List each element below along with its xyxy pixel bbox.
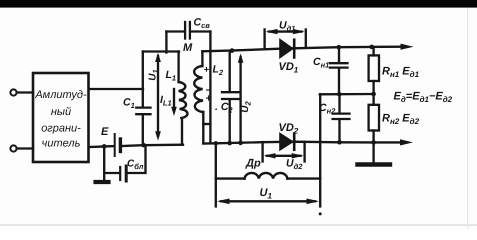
svg-text:E: E <box>101 126 109 138</box>
resistor Rn1 top stub <box>372 47 374 56</box>
node dot at E/ground junction <box>102 144 107 149</box>
ground bar right <box>358 162 391 166</box>
node dot C1 bottom <box>141 143 146 148</box>
node dot C2 bottom <box>227 141 232 146</box>
diode VD1 <box>280 40 293 58</box>
Ud1 tick left <box>263 30 265 49</box>
top output arrow head <box>401 44 414 50</box>
primary tank top wire <box>143 50 179 52</box>
svg-text:Сн2: Сн2 <box>319 102 336 116</box>
wire box output to C1 branch <box>89 88 143 90</box>
svg-text:Др: Др <box>245 158 261 170</box>
input terminal bottom <box>10 145 16 151</box>
capacitor Cn2 bottom plate <box>333 118 350 120</box>
node dot U2 bottom <box>238 141 243 146</box>
right faint page edge line <box>467 8 468 229</box>
wire Cbl branch left <box>104 172 119 174</box>
resistor Rn1 <box>369 55 379 81</box>
diode VD2 cathode bar <box>293 134 296 150</box>
inductor L2 top lead <box>201 51 203 66</box>
node dot secondary top (C2) <box>230 48 235 53</box>
wire E battery to C1 bottom node <box>122 145 183 146</box>
svg-text:U1: U1 <box>260 187 273 201</box>
wire Csv drop to secondary top <box>209 32 211 52</box>
coupling capacitor Csv left drop <box>165 32 167 53</box>
svg-text:Uд1: Uд1 <box>279 20 295 34</box>
capacitor Cn2 top plate <box>333 112 350 114</box>
U1 dimension arrow bottom <box>221 200 315 202</box>
svg-text:Сбл: Сбл <box>127 159 144 172</box>
resistor Rn2 top stub <box>372 94 374 105</box>
resistor Rn2 bottom stub <box>372 131 374 143</box>
svg-text:VD2: VD2 <box>279 122 299 136</box>
svg-text:L2: L2 <box>213 64 224 78</box>
svg-text:ный: ный <box>51 106 71 118</box>
top black bar <box>0 0 477 8</box>
wire junction down to ground <box>103 146 105 181</box>
C1 branch vertical lower <box>142 115 144 145</box>
wire terminal top to box <box>17 91 33 93</box>
svg-text:Амлитуд-: Амлитуд- <box>34 89 87 101</box>
svg-text:+: + <box>205 93 211 105</box>
amplitude limiter box U1 <box>33 73 89 162</box>
svg-text:читель: читель <box>42 138 81 150</box>
diode VD2 <box>280 134 293 150</box>
ground bar <box>96 180 109 184</box>
svg-text:Сн1: Сн1 <box>313 56 329 70</box>
inductor L2 coil <box>194 66 203 112</box>
secondary bottom rail <box>203 142 404 144</box>
svg-text:+: + <box>204 65 210 76</box>
capacitor Cn1 branch lower <box>338 69 340 95</box>
Ud1 tick right <box>305 30 307 48</box>
C1 branch vertical upper <box>142 52 144 107</box>
inductor L1 coil <box>179 82 188 118</box>
inductor L1 bottom lead <box>181 118 183 145</box>
capacitor Cn1 branch upper <box>338 47 340 62</box>
capacitor C2 bottom plate <box>222 98 239 100</box>
stray ink dot <box>319 212 322 215</box>
capacitor Csv right plate <box>189 22 191 39</box>
node dot middle rail at Rn2 <box>371 92 376 97</box>
svg-text:U2: U2 <box>240 100 253 112</box>
capacitor Csv left plate <box>184 22 186 39</box>
svg-text:U1: U1 <box>148 69 161 80</box>
svg-text:Ссв: Ссв <box>194 17 211 31</box>
inductor L2 bottom lead <box>202 112 204 143</box>
bottom faint page line <box>0 224 477 225</box>
input terminal top <box>10 89 16 95</box>
svg-text:VD1: VD1 <box>279 61 299 75</box>
node dot top rail at Cn1 <box>337 45 342 50</box>
current arrow iL1 <box>173 89 175 108</box>
resistor Rn2 <box>369 105 379 131</box>
svg-text:Uд2: Uд2 <box>286 158 303 172</box>
choke Dr wire right <box>287 177 320 179</box>
wire drop to choke / U1 tick left <box>215 143 217 206</box>
capacitor Cn2 branch upper <box>338 94 340 112</box>
capacitor C2 branch lower <box>229 100 231 143</box>
capacitor Cn1 top plate <box>330 62 348 64</box>
node dot bottom rail at Cn2 <box>337 140 342 145</box>
svg-text:L1: L1 <box>166 69 177 83</box>
choke Dr wire left <box>216 177 245 179</box>
secondary top rail <box>202 47 404 52</box>
choke Dr coil <box>245 173 288 179</box>
capacitor C2 branch upper <box>229 51 231 91</box>
wire Cbl right <box>128 145 146 173</box>
capacitor C1 top plate <box>136 106 150 108</box>
wire Csv right <box>191 30 210 32</box>
middle rail <box>320 93 374 96</box>
svg-text:С1: С1 <box>123 97 135 111</box>
resistor Rn1 bottom stub <box>372 81 374 94</box>
Ud2 tick left <box>261 142 263 161</box>
capacitor Cn2 branch lower <box>338 120 340 142</box>
Ud2 tick right <box>303 142 305 162</box>
bottom output arrow head <box>400 139 413 145</box>
svg-text:М: М <box>183 42 193 54</box>
svg-text:Eд=Eд1−Eд2: Eд=Eд1−Eд2 <box>394 91 453 105</box>
svg-text:ограни-: ограни- <box>41 123 81 135</box>
battery E long plate <box>114 134 116 156</box>
node dot at choke drop <box>214 141 218 145</box>
wire terminal bottom to box <box>17 147 33 149</box>
voltage arrow U2 <box>239 57 241 143</box>
capacitor C1 bottom plate <box>136 113 150 115</box>
wire Csv left <box>166 30 184 32</box>
svg-text:Rн2 Eд2: Rн2 Eд2 <box>382 113 420 127</box>
capacitor Cbl right plate <box>125 166 128 181</box>
vertical wire middle rail to choke / U1 tick right <box>319 94 321 206</box>
battery E short plate <box>119 139 122 152</box>
ground stub right <box>372 142 374 162</box>
svg-text:IL1: IL1 <box>160 94 172 108</box>
secondary straight line beside L2 <box>209 51 211 143</box>
voltage arrow U1 primary (double headed) <box>157 56 159 136</box>
Ud2 dimension arrow <box>267 155 301 157</box>
node dot middle rail at Cn2 <box>337 92 342 97</box>
inductor L1 top lead <box>177 52 179 83</box>
capacitor Cn1 bottom plate <box>330 66 348 68</box>
Ud1 dimension arrow <box>269 30 302 32</box>
capacitor C2 top plate <box>222 91 239 93</box>
diode VD1 cathode bar <box>293 40 296 58</box>
L2 tap rung <box>203 123 210 125</box>
capacitor Cbl left plate <box>119 167 121 180</box>
node dot top rail at Rn1 <box>369 45 374 50</box>
wire bottom rail left (box to E battery) <box>89 145 114 148</box>
node dot bottom rail at Rn2 <box>371 140 376 145</box>
svg-text:Rн1 Eд1: Rн1 Eд1 <box>382 66 420 80</box>
